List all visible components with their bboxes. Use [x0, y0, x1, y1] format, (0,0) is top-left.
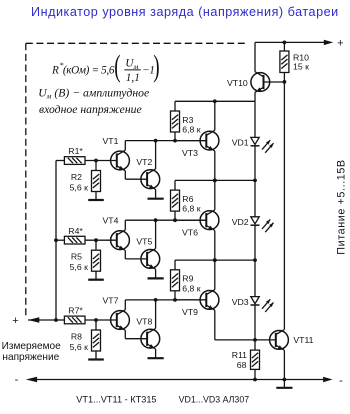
node VT3 collector [213, 99, 217, 103]
ground below VT2 [148, 198, 164, 200]
wire to VT3 base [175, 140, 206, 142]
label R3 6,8k [182, 115, 200, 135]
label VT6 [182, 227, 198, 237]
svg-text:(кОм) = 5,6: (кОм) = 5,6 [63, 65, 115, 77]
node VT8 collector [154, 298, 158, 302]
node top rail / R10 junction [283, 41, 287, 45]
label VD3 [232, 297, 249, 307]
wire bus to R4* [56, 239, 64, 241]
resistor R7* [64, 316, 85, 324]
dashed boundary top [26, 42, 246, 44]
formula R*(kOm) [38, 48, 159, 116]
transistor VT1 [111, 141, 148, 180]
resistor R11 [251, 340, 260, 380]
svg-text:15 к: 15 к [293, 62, 309, 72]
label R8 5,6k [70, 332, 88, 352]
ground below VT5 [148, 277, 164, 279]
node VT2 collector [154, 139, 158, 143]
label + (input) [12, 315, 18, 327]
label measured voltage [2, 341, 62, 363]
svg-text:VT8: VT8 [136, 316, 152, 326]
svg-text:R9: R9 [182, 274, 193, 284]
label - (right) [339, 375, 343, 387]
label VD2 [232, 217, 249, 227]
svg-text:R8: R8 [71, 332, 82, 342]
svg-text:5,6 к: 5,6 к [70, 182, 88, 192]
wire to VT9 base [175, 299, 206, 301]
svg-text:VT1...VT11 - КТ315: VT1...VT11 - КТ315 [76, 395, 156, 405]
svg-text:5,6 к: 5,6 к [70, 262, 88, 272]
diode LED VD2 [251, 180, 274, 260]
transistor VT8 [141, 300, 160, 358]
svg-text:1,1: 1,1 [126, 72, 140, 84]
label VT1 [103, 136, 119, 146]
svg-text:VD1...VD3 АЛ307: VD1...VD3 АЛ307 [179, 395, 250, 405]
node bus stage2 [54, 238, 58, 242]
label - (left) [15, 374, 19, 386]
resistor R10 [280, 42, 289, 82]
wire top + rail [255, 40, 333, 45]
label VT4 [103, 216, 119, 226]
wire stage 1 output [125, 140, 206, 142]
svg-text:VD3: VD3 [232, 297, 249, 307]
wire node row 1 [175, 179, 255, 181]
svg-text:VT5: VT5 [136, 237, 152, 247]
svg-text:Измеряемое: Измеряемое [2, 341, 62, 352]
label R2 5,6k [70, 172, 88, 192]
label VT7 [103, 296, 119, 306]
svg-text:Uм (В) − амплитудное: Uм (В) − амплитудное [38, 86, 149, 100]
wire VT9 emitter to VT11 base [215, 339, 276, 341]
label VT2 [136, 157, 152, 167]
svg-text:R5: R5 [71, 252, 82, 262]
node base VT1 [94, 159, 98, 163]
ground below R8 [88, 358, 104, 360]
node VT5 collector [154, 218, 158, 222]
node VT10 base / R10 [283, 80, 287, 84]
label VT11 [293, 335, 313, 345]
caption transistor types [76, 395, 156, 405]
node VT3 emitter [213, 179, 217, 183]
svg-text:5,6 к: 5,6 к [70, 342, 88, 352]
node R3 bottom [173, 139, 177, 143]
label VT8 [136, 316, 152, 326]
node base VT7 [94, 318, 98, 322]
node R11 bottom [253, 378, 257, 382]
wire R4* to VT4 base [85, 239, 117, 241]
transistor VT2 [141, 141, 160, 199]
label VD1 [232, 138, 249, 148]
svg-text:VT10: VT10 [227, 78, 248, 88]
caption LED types [179, 395, 250, 405]
resistor R3 [171, 101, 180, 140]
node VT6 collector [213, 179, 217, 183]
label R10 15k [293, 53, 309, 72]
label R5 5,6k [70, 252, 88, 272]
svg-text:1: 1 [149, 65, 155, 77]
dashed boundary left [25, 43, 27, 318]
svg-text:R6: R6 [182, 194, 193, 204]
label VT5 [136, 237, 152, 247]
wire R7* to VT7 base [85, 319, 117, 321]
svg-text:VT7: VT7 [103, 296, 119, 306]
wire stage 2 output [125, 219, 206, 221]
diode LED VD3 [251, 260, 274, 340]
svg-text:R: R [51, 65, 59, 77]
resistor R6 [171, 180, 180, 220]
transistor VT11 [270, 329, 289, 379]
label R1* [68, 146, 83, 156]
transistor VT3 [200, 101, 219, 180]
resistor R2 [92, 161, 101, 201]
label R6 6,8k [182, 194, 200, 214]
svg-text:VT9: VT9 [182, 307, 198, 317]
label R11 68 [232, 350, 247, 370]
svg-text:входное напряжение: входное напряжение [39, 103, 142, 116]
terminal + measured input [28, 317, 56, 322]
svg-text:-: - [339, 375, 343, 387]
svg-text:R4*: R4* [68, 226, 83, 236]
svg-text:-: - [15, 374, 19, 386]
wire bottom - rail [26, 377, 333, 382]
resistor R9 [171, 260, 180, 300]
svg-text:Питание +5...15В: Питание +5...15В [336, 159, 348, 254]
node VT9 collector [213, 258, 217, 262]
node LED VD2 cathode [253, 258, 257, 262]
label VT3 [182, 148, 198, 158]
svg-text:6,8 к: 6,8 к [182, 204, 200, 214]
svg-text:6,8 к: 6,8 к [182, 125, 200, 135]
transistor VT7 [111, 300, 148, 339]
svg-text:(: ( [114, 48, 120, 83]
svg-text:VT11: VT11 [293, 335, 313, 345]
label VT9 [182, 307, 198, 317]
svg-text:6,8 к: 6,8 к [182, 283, 200, 293]
wire R1* to VT1 base [85, 160, 117, 162]
resistor R4* [64, 236, 85, 244]
wire VT11 collector column [283, 82, 285, 330]
node bus stage3 [54, 318, 58, 322]
wire stage 3 output [125, 299, 206, 301]
node LED VD3 cathode [253, 338, 257, 342]
svg-text:VT6: VT6 [182, 227, 198, 237]
svg-text:VT1: VT1 [103, 136, 119, 146]
svg-text:VT2: VT2 [136, 157, 152, 167]
label R4* [68, 226, 83, 236]
label power supply (vertical) [336, 159, 348, 254]
svg-text:R7*: R7* [68, 306, 83, 316]
ground below R5 [88, 279, 104, 281]
svg-text:68: 68 [237, 360, 247, 370]
resistor R8 [92, 320, 101, 360]
title [31, 5, 339, 19]
wire node row 2 [175, 259, 255, 261]
node VT6 emitter [213, 258, 217, 262]
wire input bus [55, 161, 57, 321]
svg-text:Индикатор уровня заряда (напря: Индикатор уровня заряда (напряжения) бат… [31, 5, 339, 19]
node R9 bottom [173, 298, 177, 302]
wire bus to R7* [56, 319, 64, 321]
svg-text:напряжение: напряжение [2, 352, 59, 363]
svg-text:R11: R11 [232, 350, 247, 360]
transistor VT4 [111, 220, 148, 259]
svg-text:VT4: VT4 [103, 216, 119, 226]
node LED VD1 cathode [253, 179, 257, 183]
wire to VT6 base [175, 219, 206, 221]
label + (power) [337, 37, 343, 49]
svg-text:VD1: VD1 [232, 138, 249, 148]
ground chassis at bottom rail [276, 380, 292, 388]
wire node row 0 [175, 100, 255, 102]
svg-text:+: + [12, 315, 18, 327]
transistor VT6 [200, 180, 219, 260]
svg-text:+: + [337, 37, 343, 49]
ground below R2 [88, 199, 104, 201]
node R6 bottom [173, 218, 177, 222]
node VT11 emitter [283, 378, 287, 382]
svg-text:R3: R3 [182, 115, 193, 125]
transistor VT5 [141, 220, 160, 278]
diode LED VD1 [251, 101, 274, 180]
label VT10 [227, 78, 248, 88]
svg-text:R2: R2 [71, 172, 82, 182]
transistor VT10 [251, 42, 285, 101]
label R7* [68, 306, 83, 316]
transistor VT9 [200, 260, 219, 340]
node base VT4 [94, 238, 98, 242]
svg-text:R1*: R1* [68, 146, 83, 156]
resistor R5 [92, 240, 101, 280]
svg-text:VT3: VT3 [182, 148, 198, 158]
resistor R1* [64, 157, 85, 165]
wire bus to R1* [56, 160, 64, 162]
svg-text:VD2: VD2 [232, 217, 249, 227]
label R9 6,8k [182, 274, 200, 294]
ground below VT8 [148, 357, 164, 359]
